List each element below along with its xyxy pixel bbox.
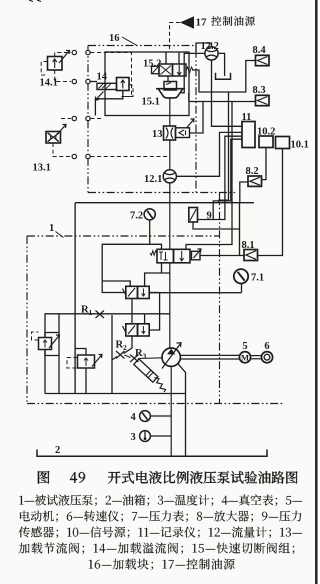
svg-text:7.2: 7.2 [130, 211, 143, 222]
recorder 11 [242, 122, 255, 148]
boundary 16 chain box [88, 46, 237, 193]
wire 12.2 to tank [218, 53, 225, 76]
main line valve down to pump [169, 263, 171, 348]
svg-text:M: M [241, 353, 249, 363]
svg-text:8.2: 8.2 [246, 166, 259, 177]
motor 5 [239, 352, 250, 363]
valve 15.2 solenoid directional [159, 64, 173, 76]
tachometer 6 [261, 352, 272, 363]
R1 orifice line [45, 314, 170, 394]
wire solenoid to amplifier 8.1 [200, 255, 244, 257]
wire 8.2 into test box edge [240, 182, 248, 203]
wire R1 line to Vb [144, 314, 146, 324]
pump 1 circle [162, 348, 180, 366]
figure title [38, 471, 50, 484]
control oil source arrow 17 [180, 16, 194, 29]
amplifier 8.3 [256, 95, 270, 105]
valve 13.1 throttle [46, 132, 61, 144]
vacuum gauge 4 [140, 411, 151, 422]
throttle valve 13 [164, 126, 176, 140]
svg-text:13: 13 [152, 129, 163, 140]
page border right edge [315, 0, 317, 584]
caption line 4 [19, 543, 295, 554]
bus vertical to 8.3 line [219, 92, 229, 203]
svg-text:10.1: 10.1 [291, 140, 309, 151]
amplifier 8.4 [256, 55, 270, 65]
svg-text:14: 14 [97, 72, 108, 83]
inner solid box valve block 15 [105, 52, 189, 116]
wire Va to Vb [131, 299, 133, 324]
wire Vb down to R2 [124, 336, 133, 354]
svg-text:4: 4 [131, 412, 137, 423]
amplifier 8.2 [248, 176, 262, 186]
flow meter 12.1 [163, 170, 176, 183]
pump variable arrow [162, 343, 181, 369]
svg-text:6: 6 [264, 341, 269, 352]
svg-text:16: 16 [109, 33, 120, 44]
caption line 2 [20, 511, 301, 522]
valve left pilot wire [102, 244, 161, 292]
caption line 5 [89, 559, 235, 570]
orifice R2 [116, 351, 125, 359]
port node circles on boundary 16 [72, 50, 76, 54]
dashed signal line inside box 16 [91, 156, 169, 158]
wire into amplifier 8.3 [189, 101, 256, 103]
relief valve B with pilot [78, 355, 95, 368]
svg-text:15.2: 15.2 [143, 59, 161, 70]
main line 15.1 down to 12.1 [169, 99, 171, 126]
shaft pump to motor [180, 354, 239, 356]
svg-text:14.1: 14.1 [40, 78, 58, 89]
amplifier 8.1 [244, 250, 258, 261]
hook above 12.2 [196, 43, 212, 52]
wire 7.1 tap to valve [149, 292, 242, 294]
svg-text:2: 2 [55, 445, 60, 456]
boundary 1 chain box [27, 193, 284, 404]
valve 15.1 cartridge insert [164, 82, 177, 91]
wire 10.1 to 8.1 [258, 149, 283, 256]
gauge 7.1 [234, 269, 248, 283]
wire valve top tap [145, 273, 170, 286]
caption line 1 [19, 494, 302, 506]
wire 12.2 down to recorder 11 [212, 60, 243, 126]
valve pilot feedback vertical [186, 102, 232, 250]
shaft motor to tachometer [251, 355, 262, 357]
svg-text:8.1: 8.1 [242, 240, 255, 251]
wire 15.1 to 12.2 [181, 53, 205, 92]
control valve Va [126, 286, 138, 298]
tank 2 [37, 450, 267, 457]
wire 12.1 to recorder 11 [176, 132, 242, 176]
svg-text:3: 3 [143, 352, 147, 361]
stub vertical near 11 [213, 139, 242, 219]
port stubs right of chain [91, 118, 104, 120]
wire R2-R3-pump [125, 355, 131, 358]
wire R2 left drop [111, 315, 113, 394]
svg-text:8.4: 8.4 [253, 45, 267, 56]
svg-text:7.1: 7.1 [251, 273, 264, 284]
main proportional control valve [157, 249, 174, 262]
pump drain line [178, 364, 186, 456]
svg-text:17: 17 [196, 17, 208, 29]
orifice R3 [130, 355, 139, 363]
wire 13 to amplifier 8.3 [190, 102, 204, 134]
svg-text:10.2: 10.2 [257, 127, 275, 138]
valve bottom-left port drop [161, 263, 163, 273]
wire Va top-left [102, 281, 130, 286]
spring on cylinder [155, 378, 166, 393]
flow meter 12.2 [205, 47, 218, 60]
pressure sensor 9 [189, 208, 198, 223]
svg-text:13.1: 13.1 [33, 163, 51, 174]
svg-text:2: 2 [123, 343, 127, 352]
svg-text:12.1: 12.1 [144, 174, 162, 185]
wire 10.2 to 8.2 [262, 148, 267, 180]
main line 12.1 down to valve [169, 183, 171, 249]
tank top right [216, 73, 231, 79]
caption line 3 [19, 527, 302, 538]
wire Va right to 7.1 line [149, 292, 159, 294]
signal source 10.2 [259, 136, 273, 148]
control valve Vb [126, 324, 138, 336]
thermometer 3 [140, 431, 151, 442]
svg-text:3: 3 [131, 432, 136, 443]
sensor 9 wires [198, 136, 243, 219]
orifice R1 [96, 311, 105, 319]
relief valve A bottom left [39, 338, 52, 350]
outer solid box of pump unit [45, 203, 254, 394]
dashed pilot line to valve 14 [91, 53, 132, 97]
stray marks top edge [29, 0, 33, 2]
valve 14 proportional relief [97, 83, 117, 89]
svg-text:1: 1 [89, 308, 93, 317]
stroking cylinder 45deg [134, 359, 158, 382]
svg-text:1: 1 [49, 223, 54, 234]
svg-text:8.3: 8.3 [253, 85, 266, 96]
pump suction line [170, 366, 172, 456]
svg-text:11: 11 [242, 112, 252, 123]
signal source 10.1 [276, 137, 290, 149]
wire to amplifier 8.4 [192, 61, 256, 93]
valve 14.1 proportional relief [48, 57, 63, 71]
dashed stub left of node [61, 118, 71, 120]
svg-text:15.1: 15.1 [142, 97, 160, 108]
gauge 7.2 [144, 209, 155, 220]
svg-text:5: 5 [242, 341, 247, 352]
